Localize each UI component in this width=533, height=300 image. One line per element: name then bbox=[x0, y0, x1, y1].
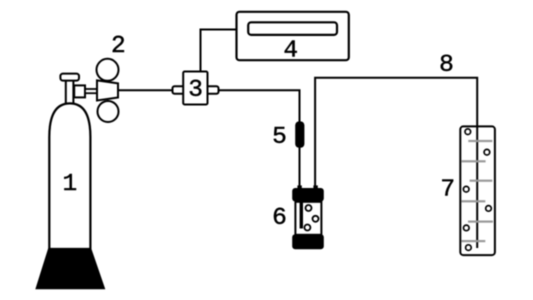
svg-text:7: 7 bbox=[440, 176, 455, 203]
svg-text:6: 6 bbox=[272, 205, 287, 232]
svg-text:5: 5 bbox=[272, 124, 287, 151]
svg-text:4: 4 bbox=[283, 37, 298, 64]
svg-text:8: 8 bbox=[439, 52, 454, 79]
svg-text:1: 1 bbox=[62, 171, 77, 198]
svg-text:3: 3 bbox=[188, 77, 203, 104]
svg-text:2: 2 bbox=[111, 33, 126, 60]
